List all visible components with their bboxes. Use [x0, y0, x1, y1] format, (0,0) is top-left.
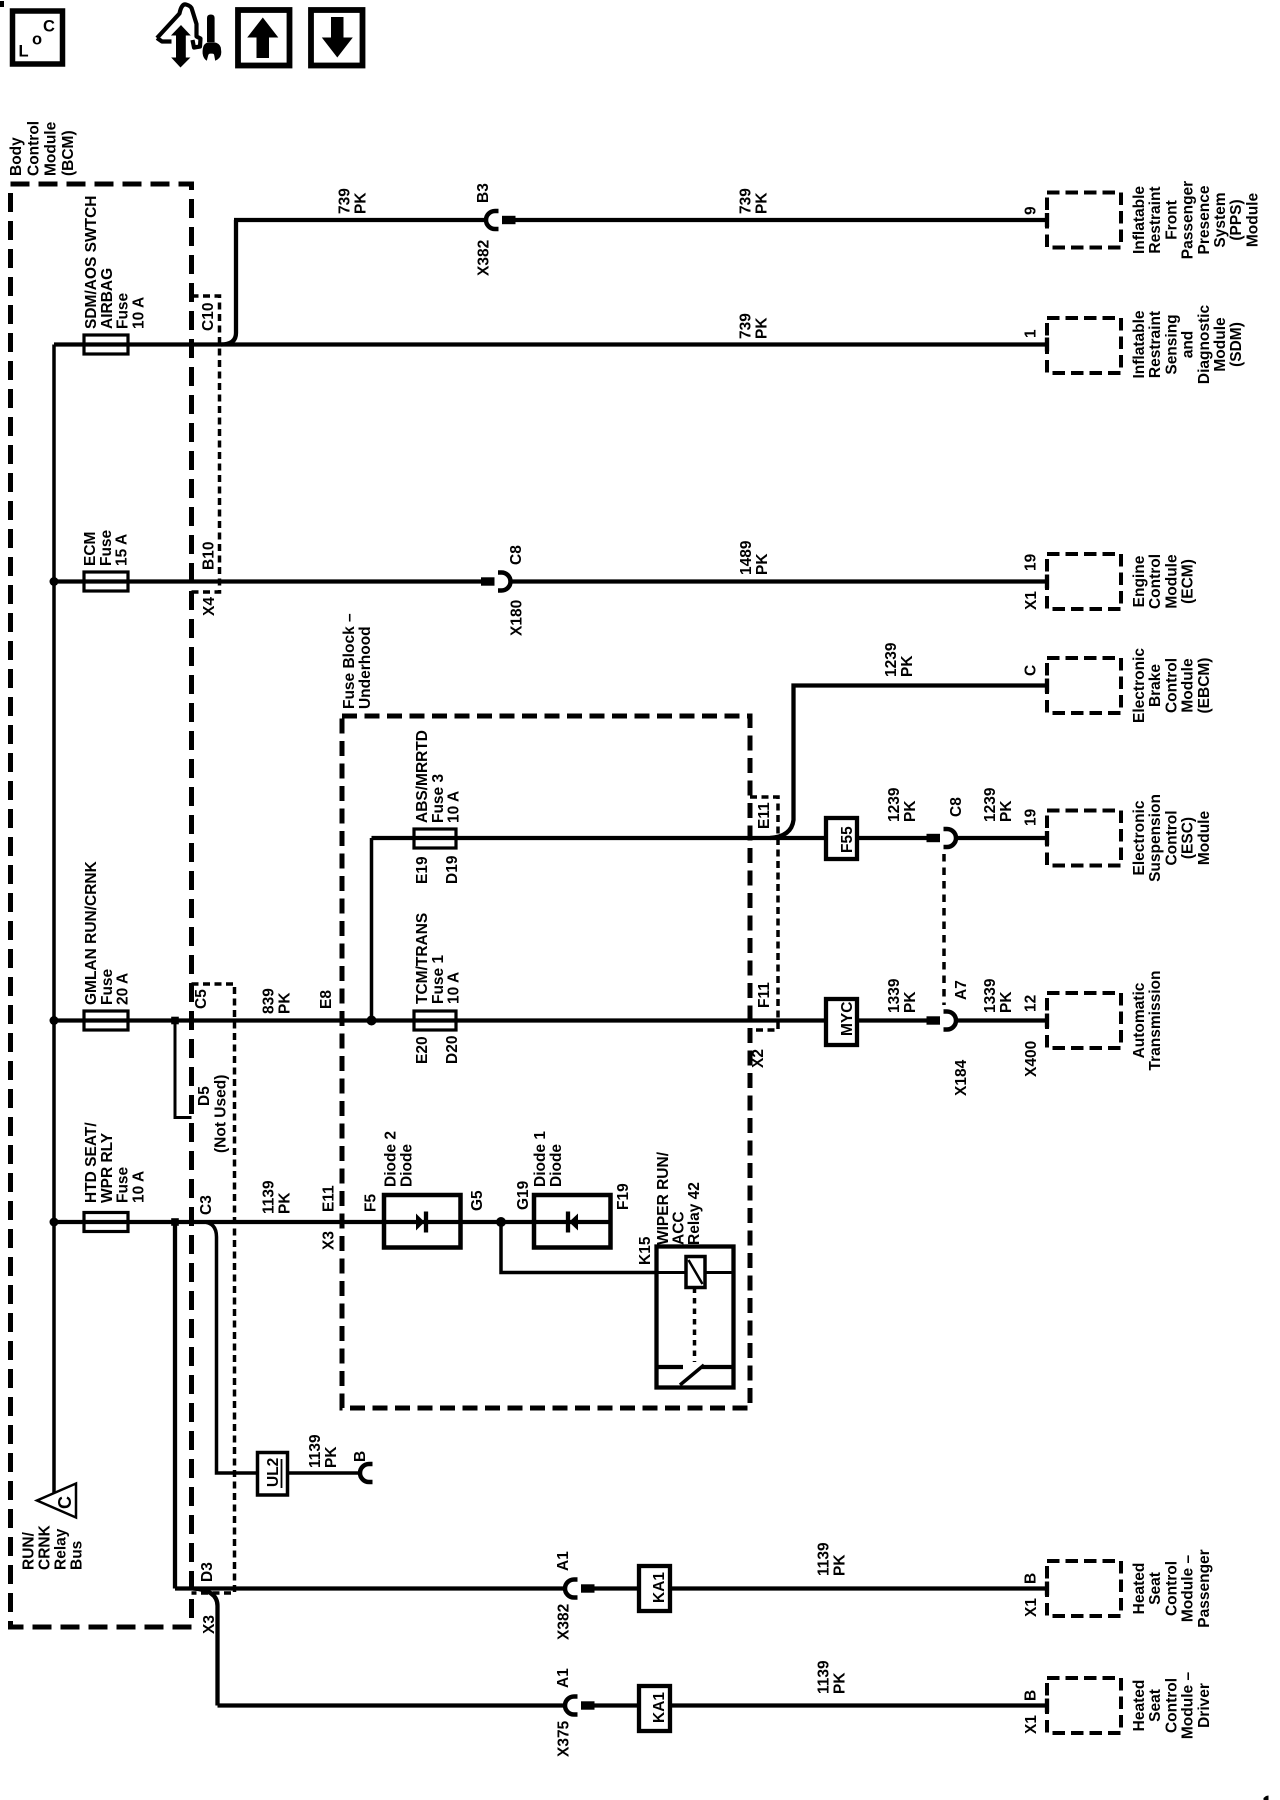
svg-text:G19: G19 — [515, 1180, 532, 1210]
svg-text:Front: Front — [1163, 200, 1180, 240]
svg-text:Relay 42: Relay 42 — [686, 1182, 703, 1245]
label: Heated Seat Control Module - Passenger — [1131, 1549, 1213, 1627]
module pin tick: Electronic Brake Control Module (EBCM) — [1045, 679, 1049, 693]
svg-text:X2: X2 — [750, 1049, 767, 1068]
relay coil lead right — [705, 1271, 734, 1274]
pin label: A7 (X184) — [953, 980, 970, 1000]
svg-text:(Not Used): (Not Used) — [213, 1075, 230, 1153]
svg-text:WPR RLY: WPR RLY — [99, 1132, 116, 1203]
connector label: X3 (BCM) — [201, 1615, 218, 1634]
splice UL2 underline — [281, 1459, 283, 1488]
pin label: C10 — [200, 303, 217, 331]
label: Fuse Block - Underhood — [341, 613, 374, 709]
svg-text:PK: PK — [998, 991, 1015, 1013]
svg-text:Fuse Block –: Fuse Block – — [341, 613, 358, 709]
svg-text:X3: X3 — [201, 1615, 218, 1634]
wire: AT row 1339 PK (right of A7) — [958, 1018, 1048, 1022]
svg-text:(BCM): (BCM) — [60, 130, 77, 176]
svg-text:Module: Module — [1163, 554, 1180, 609]
svg-text:Suspension: Suspension — [1147, 794, 1164, 882]
svg-text:A7: A7 — [953, 980, 970, 1000]
module pin tick: Electronic Suspension Control (ESC) Module — [1045, 831, 1049, 845]
connector: X184 in-line (pin C8), ESC feed — [927, 829, 957, 847]
wire: branch down to driver heated seat — [193, 1589, 218, 1706]
svg-text:Presence: Presence — [1196, 185, 1213, 254]
svg-text:1139: 1139 — [261, 1180, 278, 1214]
pin label: F19 — [615, 1183, 632, 1210]
module box: Heated Seat Control Module - Driver — [1047, 1678, 1121, 1733]
wire label: 1339 PK (AT, left) — [886, 978, 919, 1013]
fuse: TCM/TRANS Fuse 1 10 A — [414, 1011, 456, 1030]
svg-text:F11: F11 — [756, 982, 773, 1008]
svg-text:Heated: Heated — [1131, 1563, 1148, 1615]
svg-text:X375: X375 — [556, 1720, 573, 1757]
svg-text:10 A: 10 A — [446, 791, 463, 823]
pin label: 9 (Inflatable Restraint Front Passenger Presence System (PPS) Module) — [1023, 206, 1040, 215]
pin label: D5 (Not Used) — [196, 1086, 213, 1106]
wire: PPS row 739 PK (right of X382) — [516, 218, 1048, 222]
wire: ABS fuse feeder — [370, 838, 374, 1021]
svg-text:B: B — [352, 1451, 369, 1462]
wire label: 1139 PK (UL2) — [307, 1434, 340, 1468]
wire: ECM fuse row 1489 PK (right of X180) — [512, 579, 1047, 583]
wire: SDM fuse row 739 PK — [54, 342, 1047, 346]
svg-text:E11: E11 — [756, 802, 773, 829]
svg-text:X180: X180 — [509, 600, 526, 636]
wire: passenger row (A1 to KA1 to module) — [595, 1586, 1048, 1590]
wire label: 739 PK (PPS, left) — [337, 188, 370, 214]
svg-text:Module: Module — [1212, 317, 1229, 372]
wire label: 739 PK (SDM) — [738, 313, 771, 339]
connector: UL2 ring terminal B — [360, 1464, 373, 1482]
label: Inflatable Restraint Front Passenger Presence System (PPS) Module — [1131, 181, 1261, 259]
junction: GMLAN row internal branch — [171, 1017, 179, 1025]
bus symbol: RUN/CRNK Relay Bus triangle — [37, 1484, 76, 1518]
svg-text:Passenger: Passenger — [1196, 1549, 1213, 1627]
connector box: BCM X3 (pins C5, D5, C3, D3) — [192, 984, 235, 1593]
wire label: 1139 PK (HTD row) — [261, 1180, 294, 1214]
pin label: D20 — [444, 1036, 461, 1064]
icon: LOC letters — [19, 18, 56, 61]
svg-text:Inflatable: Inflatable — [1131, 186, 1148, 254]
pin label: C8 (X184) — [948, 797, 965, 817]
wire: ESC row (F55 to C8) — [857, 836, 927, 840]
svg-text:10 A: 10 A — [446, 972, 463, 1004]
module pin tick: Inflatable Restraint Front Passenger Presence System (PPS) Module — [1045, 213, 1049, 227]
svg-text:E11: E11 — [321, 1185, 338, 1212]
svg-text:Inflatable: Inflatable — [1131, 310, 1148, 378]
svg-text:Module: Module — [1196, 811, 1213, 866]
svg-text:Electronic: Electronic — [1131, 648, 1148, 723]
wire: GMLAN fuse row 839 PK — [54, 1018, 826, 1022]
label: Diode 2 — [383, 1131, 416, 1187]
connector label: X1 (Heated Seat Control Module - Driver) — [1023, 1715, 1040, 1734]
svg-text:PK: PK — [754, 192, 771, 214]
wire: branch down to UL2 splice — [203, 1222, 359, 1473]
svg-text:Control: Control — [1163, 1561, 1180, 1616]
label: MYC — [839, 1002, 856, 1036]
svg-text:Brake: Brake — [1147, 664, 1164, 707]
svg-text:Control: Control — [1147, 554, 1164, 609]
wire: BCM internal RUN/CRNK rail — [52, 345, 56, 1494]
module pin tick: Heated Seat Control Module - Driver — [1045, 1699, 1049, 1713]
svg-text:PK: PK — [832, 1554, 849, 1576]
svg-text:F19: F19 — [615, 1183, 632, 1210]
svg-text:739: 739 — [337, 188, 354, 214]
svg-text:Restraint: Restraint — [1147, 186, 1164, 253]
connector label: X184 — [953, 1059, 970, 1096]
svg-text:PK: PK — [277, 992, 294, 1014]
svg-text:1239: 1239 — [886, 787, 903, 822]
module box: Automatic Transmission — [1047, 993, 1121, 1048]
svg-text:Relay: Relay — [53, 1528, 70, 1570]
svg-text:1339: 1339 — [886, 978, 903, 1013]
scan artifact: top-left corner mark — [0, 1, 4, 7]
svg-text:Diode: Diode — [399, 1144, 416, 1187]
svg-text:PK: PK — [998, 800, 1015, 822]
label: Engine Control Module (ECM) — [1131, 554, 1197, 609]
diode D1 symbol — [569, 1214, 578, 1231]
pin label: F11 — [756, 982, 773, 1008]
diode D2 box — [384, 1195, 461, 1248]
svg-text:and: and — [1180, 331, 1197, 359]
pin label: D19 — [444, 855, 461, 884]
label: SDM/AOS SWTCH AIRBAG Fuse 10 A — [83, 196, 147, 329]
svg-text:System: System — [1212, 192, 1229, 247]
pin label: B (Heated Seat Control Module - Passenger) — [1023, 1573, 1040, 1584]
svg-text:KA1: KA1 — [651, 1692, 668, 1723]
connector label: X3 (fuse block) — [321, 1231, 338, 1250]
pin label: B (UL2) — [352, 1451, 369, 1462]
svg-text:Diagnostic: Diagnostic — [1196, 305, 1213, 385]
svg-text:B10: B10 — [201, 542, 218, 570]
svg-text:D20: D20 — [444, 1036, 461, 1064]
connector: X382 in-line (pin A1), passenger seat — [565, 1580, 595, 1598]
svg-text:1239: 1239 — [982, 787, 999, 822]
svg-text:PK: PK — [902, 800, 919, 822]
label: GMLAN RUN/CRNK Fuse 20 A — [83, 860, 132, 1005]
pin label: B3 — [475, 183, 492, 203]
connector: X382 in-line (pin B3), PPS feed — [486, 211, 516, 229]
junction: diode branch node — [496, 1217, 506, 1227]
wire: BCM pin D3 row to passenger heated seat 1139 PK — [175, 1586, 564, 1590]
svg-text:C8: C8 — [948, 797, 965, 817]
label: F55 — [839, 826, 856, 853]
svg-text:E8: E8 — [318, 990, 335, 1009]
svg-text:Module: Module — [1244, 193, 1261, 248]
module box: Heated Seat Control Module - Passenger — [1047, 1561, 1121, 1616]
svg-text:B: B — [1023, 1690, 1040, 1701]
pin label: E11 (fuse block left) — [321, 1185, 338, 1212]
label: KA1 (driver) — [651, 1692, 668, 1723]
module pin tick: Inflatable Restraint Sensing and Diagnostic Module (SDM) — [1045, 338, 1049, 352]
svg-text:RUN/: RUN/ — [21, 1531, 38, 1570]
svg-text:C: C — [1023, 665, 1040, 676]
wire label: 1239 PK (EBCM) — [883, 642, 916, 677]
svg-text:Fuse 1: Fuse 1 — [430, 955, 447, 1004]
wire: driver row (A1 to KA1 to module) — [595, 1703, 1048, 1707]
svg-text:F55: F55 — [839, 826, 856, 853]
svg-text:1139: 1139 — [816, 1660, 833, 1694]
svg-text:Fuse: Fuse — [115, 1166, 132, 1203]
svg-text:PK: PK — [323, 1446, 340, 1468]
svg-text:PK: PK — [754, 553, 771, 575]
wire label: 839 PK (GMLAN) — [261, 988, 294, 1014]
svg-text:Electronic: Electronic — [1131, 800, 1148, 875]
svg-text:Fuse: Fuse — [99, 968, 116, 1005]
svg-text:X1: X1 — [1023, 591, 1040, 610]
svg-text:X400: X400 — [1023, 1041, 1040, 1077]
svg-text:X382: X382 — [476, 240, 493, 276]
svg-text:Bus: Bus — [69, 1541, 86, 1570]
pin label: 19 (Engine Control Module (ECM)) — [1023, 553, 1040, 571]
svg-text:Passenger: Passenger — [1180, 181, 1197, 259]
pin label: 1 (Inflatable Restraint Sensing and Diagnostic Module (SDM)) — [1023, 329, 1040, 338]
svg-text:Seat: Seat — [1147, 1572, 1164, 1605]
fuse: ECM Fuse 15 A — [84, 572, 128, 591]
label: (Not Used) — [213, 1075, 230, 1153]
svg-text:12: 12 — [1023, 995, 1040, 1012]
svg-text:Diode: Diode — [548, 1144, 565, 1187]
component MYC box (AT feed) — [826, 999, 857, 1045]
connector box: fuse block X2 (pins E11, F11) — [750, 797, 778, 1030]
svg-text:X4: X4 — [201, 597, 218, 616]
wire: BCM internal HTD fuse to pin D3 — [173, 1222, 177, 1589]
wire label: 1339 PK (AT, right) — [982, 978, 1015, 1013]
wire: ECM fuse row 1489 PK (left of X180) — [54, 579, 482, 583]
connector label: X2 — [750, 1049, 767, 1068]
label: C (relay bus) — [55, 1496, 75, 1509]
component KA1 box (passenger) — [639, 1566, 670, 1611]
svg-text:X184: X184 — [953, 1059, 970, 1096]
pin label: G5 — [469, 1190, 486, 1211]
svg-text:ECM: ECM — [82, 532, 99, 566]
svg-text:Transmission: Transmission — [1147, 971, 1164, 1071]
svg-text:C: C — [55, 1496, 75, 1509]
svg-text:1239: 1239 — [883, 642, 900, 677]
wire: ABS/MRRTD fuse row 1239 PK — [372, 836, 827, 840]
icon: adjust arrows outline — [157, 4, 201, 47]
svg-text:(SDM): (SDM) — [1228, 322, 1245, 367]
connector: X180 in-line (pin C8), ECM feed — [481, 573, 511, 591]
module box: Electronic Brake Control Module (EBCM) — [1047, 658, 1121, 713]
junction: rail at ECM fuse — [50, 577, 59, 586]
label: ECM Fuse 15 A — [82, 529, 131, 566]
svg-text:PK: PK — [277, 1192, 294, 1214]
wire: AT row (MYC to A7) — [857, 1018, 927, 1022]
component F55 box (ESC feed) — [826, 818, 857, 859]
svg-text:PK: PK — [353, 192, 370, 214]
svg-text:E20: E20 — [414, 1036, 431, 1064]
label: Automatic Transmission — [1131, 971, 1164, 1071]
label: Body Control Module (BCM) — [8, 121, 77, 176]
label: KA1 (passenger) — [651, 1572, 668, 1603]
svg-text:PK: PK — [899, 655, 916, 677]
svg-text:Fuse: Fuse — [98, 529, 115, 566]
svg-text:X1: X1 — [1023, 1715, 1040, 1734]
svg-text:AIRBAG: AIRBAG — [99, 268, 116, 329]
svg-text:PK: PK — [754, 317, 771, 339]
component KA1 box (driver) — [639, 1686, 670, 1731]
svg-text:KA1: KA1 — [651, 1572, 668, 1603]
svg-text:Body: Body — [8, 137, 25, 176]
svg-text:Fuse: Fuse — [115, 292, 132, 329]
module pin tick: Heated Seat Control Module - Passenger — [1045, 1582, 1049, 1596]
svg-text:PK: PK — [832, 1672, 849, 1694]
svg-text:C3: C3 — [198, 1195, 215, 1215]
relay coil lead left — [657, 1271, 687, 1274]
pin label: G19 — [515, 1180, 532, 1210]
icon: scroll-down button — [311, 10, 363, 66]
svg-text:Module: Module — [43, 121, 60, 176]
svg-text:Module: Module — [1180, 658, 1197, 713]
svg-text:A1: A1 — [555, 1551, 572, 1571]
relay coil — [686, 1257, 705, 1288]
wire label: 1139 PK (driver) — [816, 1660, 849, 1694]
svg-text:HTD SEAT/: HTD SEAT/ — [83, 1122, 100, 1203]
svg-text:Control: Control — [25, 121, 42, 176]
label: RUN/CRNK Relay Bus — [21, 1524, 86, 1570]
svg-text:1139: 1139 — [816, 1542, 833, 1576]
svg-text:(EBCM): (EBCM) — [1196, 658, 1213, 714]
icon: double vertical arrow — [173, 27, 188, 67]
svg-text:10 A: 10 A — [130, 297, 147, 329]
pin label: A1 (passenger) — [555, 1551, 572, 1571]
pin label: C8 (X180) — [508, 545, 525, 565]
svg-text:839: 839 — [261, 988, 278, 1014]
svg-text:X1: X1 — [1023, 1598, 1040, 1617]
svg-text:739: 739 — [738, 188, 755, 214]
svg-text:ACC: ACC — [671, 1211, 688, 1245]
svg-text:Sensing: Sensing — [1163, 314, 1180, 374]
svg-text:1139: 1139 — [307, 1434, 324, 1468]
connector label: X180 — [509, 600, 526, 636]
fuse: HTD SEAT/WPR RLY Fuse 10 A — [84, 1213, 128, 1232]
svg-text:F5: F5 — [363, 1194, 380, 1212]
svg-text:SDM/AOS SWTCH: SDM/AOS SWTCH — [83, 196, 100, 329]
module box: Inflatable Restraint Sensing and Diagnostic Module (SDM) — [1047, 318, 1121, 373]
svg-text:Control: Control — [1163, 1678, 1180, 1733]
svg-text:Fuse 3: Fuse 3 — [430, 774, 447, 823]
svg-text:Automatic: Automatic — [1131, 982, 1148, 1058]
svg-text:D5: D5 — [196, 1086, 213, 1106]
icon: LOC box — [13, 11, 63, 64]
relay switch blade (open) — [680, 1365, 704, 1385]
pin label: A1 (driver) — [555, 1668, 572, 1688]
svg-text:9: 9 — [1023, 206, 1040, 215]
svg-text:Restraint: Restraint — [1147, 311, 1164, 378]
svg-text:GMLAN RUN/CRNK: GMLAN RUN/CRNK — [83, 860, 100, 1005]
pin label: B (Heated Seat Control Module - Driver) — [1023, 1690, 1040, 1701]
svg-text:C8: C8 — [508, 545, 525, 565]
pin label: E11 (fuse block right) — [756, 802, 773, 829]
wire: branch up to EBCM row 1239 PK — [770, 686, 1047, 839]
module box: Electronic Suspension Control (ESC) Module — [1047, 811, 1121, 866]
fuse: ABS/MRRTD Fuse 3 10 A — [414, 829, 456, 848]
pin label: 12 (Automatic Transmission) — [1023, 995, 1040, 1012]
module box: Fuse Block - Underhood — [342, 716, 750, 1408]
svg-text:(PPS): (PPS) — [1228, 199, 1245, 240]
wire label: 1139 PK (passenger) — [816, 1542, 849, 1576]
relay K15 WIPER RUN/ACC Relay 42 box — [657, 1247, 734, 1388]
svg-text:Underhood: Underhood — [357, 626, 374, 709]
pin label: D3 — [199, 1562, 216, 1582]
wire: PPS row 739 PK (left of X382) — [234, 218, 485, 222]
junction: HTD row internal branch — [171, 1218, 179, 1226]
svg-text:G5: G5 — [469, 1190, 486, 1211]
label: Heated Seat Control Module - Driver — [1131, 1672, 1213, 1740]
wire: branch to BCM pin D5 (not used) — [175, 1021, 192, 1118]
svg-text:Diode 2: Diode 2 — [383, 1131, 400, 1187]
svg-text:Engine: Engine — [1131, 555, 1148, 607]
connector box: BCM X4 (pins C10, B10) — [192, 296, 220, 592]
pin label: C5 — [193, 989, 210, 1009]
svg-text:10 A: 10 A — [130, 1171, 147, 1203]
wire: ESC row 1239 PK (right of C8) — [958, 836, 1048, 840]
svg-text:UL2: UL2 — [265, 1458, 282, 1487]
svg-text:(ESC): (ESC) — [1180, 817, 1197, 859]
connector label: X382 (passenger) — [556, 1604, 573, 1640]
module box: Inflatable Restraint Front Passenger Presence System (PPS) Module — [1047, 193, 1121, 248]
junction: fuse block feed node — [367, 1016, 377, 1026]
svg-text:19: 19 — [1023, 808, 1040, 826]
module pin tick: Engine Control Module (ECM) — [1045, 575, 1049, 589]
svg-text:1489: 1489 — [738, 540, 755, 575]
label: Electronic Suspension Control (ESC) Module — [1131, 794, 1213, 882]
module box: Engine Control Module (ECM) — [1047, 554, 1121, 609]
svg-text:(ECM): (ECM) — [1180, 559, 1197, 604]
wire label: 739 PK (PPS, right) — [738, 188, 771, 214]
relay switch contacts — [657, 1365, 684, 1369]
fuse: SDM/AOS SWTCH AIRBAG Fuse 10 A — [84, 335, 128, 354]
svg-text:TCM/TRANS: TCM/TRANS — [414, 913, 431, 1004]
pin label: 19 (Electronic Suspension Control (ESC) Module) — [1023, 808, 1040, 826]
connector label: X400 (Automatic Transmission) — [1023, 1041, 1040, 1077]
module box: Body Control Module (BCM) — [11, 184, 192, 1627]
svg-text:Heated: Heated — [1131, 1680, 1148, 1732]
pin label: C3 — [198, 1195, 215, 1215]
svg-text:PK: PK — [902, 991, 919, 1013]
pin label: E20 — [414, 1036, 431, 1064]
label: Inflatable Restraint Sensing and Diagnostic Module (SDM) — [1131, 305, 1245, 385]
svg-text:o: o — [32, 31, 42, 49]
pin label: K15 — [637, 1236, 654, 1265]
diode D1 box — [534, 1195, 611, 1248]
wire: branch from diode junction to relay K15 — [501, 1222, 656, 1273]
label: Diode 1 — [532, 1131, 565, 1187]
connector label: X1 (Engine Control Module (ECM)) — [1023, 591, 1040, 610]
svg-text:C10: C10 — [200, 303, 217, 331]
svg-text:K15: K15 — [637, 1236, 654, 1265]
wire label: 1239 PK (ESC, right) — [982, 787, 1015, 822]
connector label: X375 — [556, 1720, 573, 1757]
splice UL2 box — [258, 1453, 288, 1496]
svg-text:E19: E19 — [414, 856, 431, 884]
connector label: X1 (Heated Seat Control Module - Passenger) — [1023, 1598, 1040, 1617]
pin label: C (Electronic Brake Control Module (EBCM)) — [1023, 665, 1040, 676]
svg-text:B3: B3 — [475, 183, 492, 203]
connector: X184 in-line (pin A7), AT feed — [927, 1012, 957, 1030]
label: ABS/MRRTD Fuse 3 10 A — [414, 730, 463, 823]
connector label: X4 — [201, 597, 218, 616]
svg-text:15 A: 15 A — [114, 534, 131, 566]
label: WIPER RUN/ACC Relay 42 — [655, 1151, 703, 1245]
module pin tick: Automatic Transmission — [1045, 1014, 1049, 1028]
svg-text:Diode 1: Diode 1 — [532, 1131, 549, 1187]
svg-text:D3: D3 — [199, 1562, 216, 1582]
junction: rail at GMLAN fuse — [50, 1016, 59, 1025]
svg-text:L: L — [19, 43, 29, 61]
